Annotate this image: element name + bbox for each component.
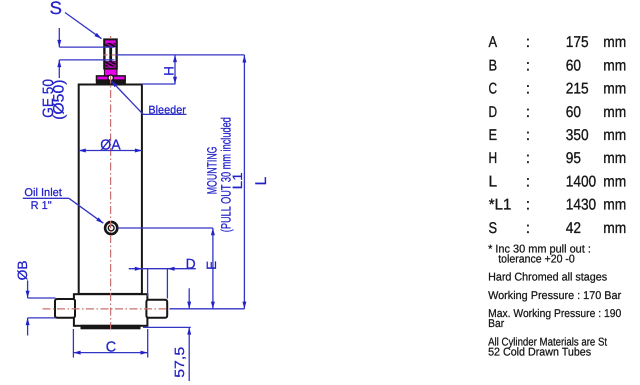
- svg-text:57,5: 57,5: [172, 347, 187, 378]
- svg-text::: :: [526, 197, 530, 214]
- svg-text:mm: mm: [603, 81, 626, 98]
- svg-text::: :: [526, 220, 530, 237]
- svg-text:MOUNTING: MOUNTING: [204, 147, 219, 195]
- svg-text::: :: [526, 34, 530, 51]
- svg-text:Bleeder: Bleeder: [148, 104, 186, 116]
- svg-text:Hard Chromed all stages: Hard Chromed all stages: [488, 272, 607, 284]
- svg-text:350: 350: [566, 127, 589, 144]
- svg-text:S: S: [50, 0, 63, 18]
- svg-text:A: A: [489, 34, 498, 51]
- svg-text:L1: L1: [230, 172, 245, 189]
- svg-text:H: H: [161, 66, 176, 76]
- svg-text:95: 95: [566, 150, 581, 167]
- svg-text:R 1": R 1": [31, 200, 52, 212]
- svg-text:ØA: ØA: [100, 138, 121, 154]
- svg-text:C: C: [106, 339, 116, 355]
- svg-text:175: 175: [566, 34, 589, 51]
- svg-text:mm: mm: [603, 104, 626, 121]
- svg-text:mm: mm: [603, 127, 626, 144]
- svg-text:L: L: [253, 176, 270, 185]
- svg-text:E: E: [489, 127, 498, 144]
- svg-text:H: H: [489, 150, 498, 167]
- svg-text:1430: 1430: [566, 197, 597, 214]
- svg-text:E: E: [204, 261, 219, 270]
- svg-text::: :: [526, 104, 530, 121]
- svg-text:52 Cold Drawn Tubes: 52 Cold Drawn Tubes: [488, 346, 591, 358]
- svg-text:mm: mm: [603, 150, 626, 167]
- svg-text:215: 215: [566, 81, 589, 98]
- svg-text:42: 42: [566, 220, 581, 237]
- svg-text:mm: mm: [603, 57, 626, 74]
- svg-text:Working Pressure : 170 Bar: Working Pressure : 170 Bar: [488, 290, 621, 302]
- svg-text::: :: [526, 81, 530, 98]
- svg-text::: :: [526, 127, 530, 144]
- svg-text:mm: mm: [603, 34, 626, 51]
- svg-text::: :: [526, 173, 530, 190]
- svg-text:S: S: [489, 220, 498, 237]
- svg-text:Bar: Bar: [488, 318, 504, 330]
- svg-text:B: B: [489, 57, 498, 74]
- svg-text:*L1: *L1: [489, 197, 512, 214]
- svg-text::: :: [526, 150, 530, 167]
- svg-text:60: 60: [566, 104, 582, 121]
- svg-text::: :: [526, 57, 530, 74]
- svg-text:L: L: [489, 173, 498, 190]
- svg-text:(Ø50): (Ø50): [51, 79, 68, 119]
- svg-text:tolerance +20 -0: tolerance +20 -0: [498, 254, 575, 266]
- svg-text:mm: mm: [603, 197, 626, 214]
- svg-text:D: D: [489, 104, 498, 121]
- svg-text:ØB: ØB: [15, 260, 30, 280]
- svg-text:Max. Working Pressure : 190: Max. Working Pressure : 190: [488, 308, 621, 320]
- svg-text:1400: 1400: [566, 173, 597, 190]
- svg-text:Oil Inlet: Oil Inlet: [24, 187, 62, 199]
- svg-text:60: 60: [566, 57, 582, 74]
- svg-text:C: C: [489, 81, 498, 98]
- svg-text:mm: mm: [603, 173, 626, 190]
- svg-text:mm: mm: [603, 220, 626, 237]
- svg-text:D: D: [186, 255, 196, 271]
